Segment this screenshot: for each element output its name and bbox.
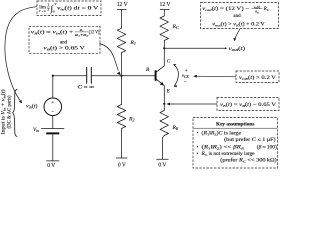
svg-text:(β ≈ 100): (β ≈ 100) [257,145,277,150]
wire AC source to battery [52,116,54,129]
svg-text:12 V: 12 V [160,1,171,8]
svg-text:vB(t) > 0.65 V: vB(t) > 0.65 V [43,46,85,51]
vCE arc top arrowhead [173,64,176,66]
assumption box 2 [29,26,100,53]
wire input source corner to capacitor [53,75,87,77]
wire 12V to R1 top [121,10,123,29]
arrow from box4 to vCE annotation [196,75,236,78]
svg-text:RC: RC [172,24,179,30]
node B junction dot [120,75,122,77]
svg-text:(R1‖R2)C is large: (R1‖R2)C is large [202,132,242,137]
svg-text:C: C [167,59,171,65]
wire collector node to vout terminal [164,47,225,49]
collector node junction dot [163,47,165,49]
svg-text:RE: RE [172,125,179,131]
svg-text:vout(t) > vE(t) + 0.2 V: vout(t) > vE(t) + 0.2 V [212,22,265,27]
svg-text:vin(t) dt = 0 V: vin(t) dt = 0 V [57,7,99,12]
wire collector node down to transistor collector [163,48,165,66]
svg-text:(but prefer C ≤ 1 µF): (but prefer C ≤ 1 µF) [224,138,276,143]
supply 12V right terminal tick [160,9,169,11]
battery Vin long plate [42,128,65,130]
wire base [122,75,156,77]
wire emitter to node E [163,86,165,104]
wire capacitor to node B [91,75,121,77]
svg-text:vout(t) = (12 V) −: vout(t) = (12 V) − [202,7,249,12]
wire R2 bottom to ground [121,129,123,159]
svg-text:R1: R1 [130,40,136,46]
svg-text:−: − [184,80,187,85]
assumption box 4 [236,71,279,83]
vout terminal dot [225,47,227,49]
vCE arc bottom arrowhead [174,85,177,88]
transistor Q1 base bar [155,70,157,81]
vCE annotation arc [174,65,178,86]
wire corner down to AC source [52,76,54,98]
svg-text:vE(t) = vB(t) − 0.65 V: vE(t) = vB(t) − 0.65 V [220,103,276,108]
capacitor C plates [87,68,92,84]
svg-text:and: and [60,40,68,45]
ground tick left [47,160,59,162]
arrow from box3 to vout label [235,29,240,39]
svg-text:vin(t): vin(t) [26,102,38,109]
ground tick middle [116,157,127,159]
key assumptions rule [193,127,278,129]
svg-text:(prefer RC << 300 kΩ): (prefer RC << 300 kΩ) [220,158,277,163]
svg-text:12 V: 12 V [117,1,128,8]
svg-text:1: 1 [47,3,49,7]
svg-text:(R1‖R2) << βRE: (R1‖R2) << βRE [202,145,246,150]
wire RC bottom to collector node [163,41,165,49]
assumption box 3 [201,3,279,29]
wire R1 bottom to node B junction [121,53,123,76]
svg-text:and: and [233,14,241,19]
resistor RC [160,16,168,41]
input brace [13,89,18,136]
resistor RE [160,111,168,136]
svg-text:vB(t) ≈ vin(t) +: vB(t) ≈ vin(t) + [31,30,74,35]
wire battery to ground [52,134,54,161]
resistor R1 [117,28,125,52]
svg-text:+: + [51,100,54,106]
svg-text:RC is not extremely large: RC is not extremely large [200,152,254,157]
key assumptions box [193,118,278,169]
wire node E to RE top [163,104,165,111]
svg-text:0 V: 0 V [47,163,56,169]
resistor R2 [117,105,125,129]
svg-text:+: + [185,69,188,74]
battery Vin short plate [47,132,59,134]
transistor Q1 emitter lead [156,79,164,85]
svg-text:T→∞: T→∞ [39,9,46,13]
wire RE bottom to ground [163,136,165,160]
assumption box 5 [217,98,279,111]
wire node B to R2 top [121,76,123,105]
assumption box 1 [37,1,101,16]
svg-text:Input is Vin + vin(t): Input is Vin + vin(t) [2,89,7,134]
supply 12V left terminal tick [117,9,126,11]
svg-text:C ≈ ∞: C ≈ ∞ [78,85,95,90]
svg-text:−: − [51,110,54,116]
AC source vin circle [44,98,62,116]
svg-text:0 V: 0 V [158,163,167,169]
node E junction dot [163,103,165,105]
svg-text:vCE(t) > 0.2 V: vCE(t) > 0.2 V [239,76,277,81]
arrow from box1 to AC source [5,7,37,102]
transistor Q1 emitter arrowhead [160,82,164,86]
arrow from box2 to node B [100,44,119,71]
wire 12V to RC top [163,10,165,16]
ground tick right [157,158,169,160]
transistor Q1 collector lead [156,66,164,72]
svg-text:Key assumptions: Key assumptions [216,121,255,127]
svg-text:(DC & AC parts): (DC & AC parts) [7,95,12,128]
input corner junction dot [52,75,54,77]
svg-text:R2: R2 [128,117,134,123]
arrow from box5 to node E [169,103,217,105]
svg-text:(12 V): (12 V) [89,30,100,35]
svg-text:0 V: 0 V [118,163,127,169]
svg-text:RC: RC [263,7,270,12]
